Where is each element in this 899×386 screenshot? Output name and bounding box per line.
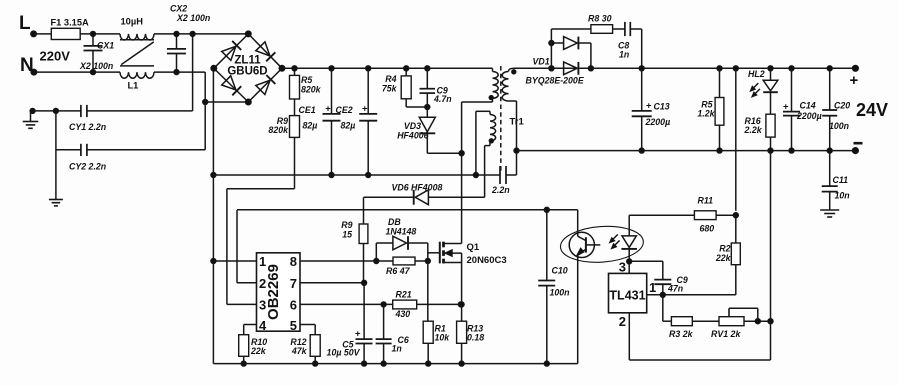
label + terminal <box>850 72 859 89</box>
svg-text:CE1: CE1 <box>299 105 316 115</box>
resistor R5 820k <box>290 66 322 116</box>
svg-text:C13: C13 <box>654 102 670 112</box>
wire <box>34 71 120 73</box>
wire snubber <box>551 29 591 68</box>
wire <box>55 111 57 197</box>
capacitor CY1 2.2n <box>69 105 106 132</box>
svg-text:N: N <box>20 55 34 76</box>
pin 5 <box>290 318 297 333</box>
svg-text:10n: 10n <box>835 191 850 201</box>
capacitor 2.2n <box>491 166 517 195</box>
capacitor CX1 <box>79 31 114 75</box>
svg-text:2.2n: 2.2n <box>491 185 510 195</box>
node bridge left vertex vertical <box>211 68 216 363</box>
terminal N <box>20 55 37 76</box>
wire pin8 gate drive <box>300 258 379 263</box>
svg-text:1: 1 <box>259 254 266 269</box>
wire DC- to bridge <box>205 101 248 103</box>
capacitor C20 100n <box>822 66 850 154</box>
svg-text:CY1 2.2n: CY1 2.2n <box>69 122 106 132</box>
pin 2 <box>259 276 266 291</box>
pin 2 label <box>619 314 626 329</box>
svg-text:15: 15 <box>342 230 352 240</box>
ground <box>820 192 839 217</box>
svg-text:220V: 220V <box>40 49 71 64</box>
wire pin3 <box>227 303 257 305</box>
wire <box>34 33 52 35</box>
svg-text:X2 100n: X2 100n <box>176 13 210 23</box>
wire divider column <box>770 151 772 360</box>
svg-text:CX1: CX1 <box>97 41 114 51</box>
led HL2 <box>748 66 778 115</box>
svg-text:C10: C10 <box>552 266 568 276</box>
transformer core <box>500 66 502 172</box>
svg-text:R21: R21 <box>396 290 412 300</box>
svg-text:TL431: TL431 <box>609 289 645 303</box>
svg-text:CE2: CE2 <box>336 105 353 115</box>
svg-text:82µ: 82µ <box>341 121 356 131</box>
svg-text:CY2 2.2n: CY2 2.2n <box>69 162 106 172</box>
svg-text:1N4148: 1N4148 <box>386 227 417 237</box>
svg-text:C20: C20 <box>834 101 850 111</box>
led opto <box>610 215 638 273</box>
svg-text:75k: 75k <box>382 84 398 94</box>
svg-text:HF4006: HF4006 <box>397 131 428 141</box>
potentiometer RV1 2k <box>711 308 773 339</box>
bridge rectifier ZL11 GBU6D <box>211 31 285 105</box>
svg-text:+: + <box>362 104 368 115</box>
svg-text:24V: 24V <box>856 100 888 120</box>
svg-text:GBU6D: GBU6D <box>227 66 267 78</box>
svg-text:DB: DB <box>388 217 401 227</box>
svg-text:20N60C3: 20N60C3 <box>467 255 507 266</box>
svg-text:OB2269: OB2269 <box>265 264 282 320</box>
svg-text:820k: 820k <box>268 125 289 135</box>
svg-text:F1 3.15A: F1 3.15A <box>51 18 90 28</box>
svg-text:VD6 HF4008: VD6 HF4008 <box>392 183 443 193</box>
capacitor C9 4.7n <box>420 66 452 118</box>
ground <box>49 197 63 206</box>
svg-text:HL2: HL2 <box>748 69 765 79</box>
svg-text:L1: L1 <box>128 81 139 91</box>
regulator TL431 box <box>609 273 647 312</box>
wire 24V- rail <box>517 148 859 154</box>
capacitor C5 10µ 50V <box>327 283 373 367</box>
svg-text:C14: C14 <box>800 101 816 111</box>
pin 4 <box>259 318 267 333</box>
svg-text:47n: 47n <box>667 284 683 294</box>
svg-text:BYQ28E-200E: BYQ28E-200E <box>526 76 585 86</box>
svg-text:+: + <box>783 102 789 113</box>
resistor R21 430 <box>393 290 464 320</box>
svg-text:R4: R4 <box>385 74 396 84</box>
svg-text:2: 2 <box>619 314 626 329</box>
svg-text:R5: R5 <box>301 75 312 85</box>
svg-text:R3 2k: R3 2k <box>669 329 694 339</box>
pin 3 <box>259 297 266 312</box>
svg-text:10µH: 10µH <box>121 17 144 27</box>
resistor R12 47k <box>290 325 320 367</box>
resistor R5 1.2k (output) <box>697 66 724 154</box>
resistor R4 75k <box>382 66 430 110</box>
wire CY1 branch from L row <box>87 31 195 111</box>
resistor R2 22k <box>715 215 740 295</box>
wire 24V+ rail <box>514 65 859 71</box>
svg-text:+: + <box>850 72 859 89</box>
svg-text:Tr1: Tr1 <box>510 117 525 128</box>
svg-text:VD1: VD1 <box>533 57 550 67</box>
svg-text:L: L <box>19 13 31 34</box>
pin 7 <box>290 276 297 291</box>
wire TL431 anode <box>629 313 770 360</box>
wire led anode <box>629 214 694 216</box>
svg-text:100n: 100n <box>829 121 849 131</box>
wire pin1 gnd <box>213 260 256 262</box>
resistor R3 2k <box>669 317 719 339</box>
transformer Tr1 aux winding <box>476 111 496 197</box>
svg-text:3: 3 <box>619 260 626 275</box>
wire <box>80 33 120 35</box>
capacitor C13 2200µ <box>632 66 670 154</box>
label 220V <box>40 49 71 64</box>
svg-text:0.18: 0.18 <box>467 333 484 343</box>
svg-text:VD3: VD3 <box>404 121 421 131</box>
resistor R11 680 <box>694 196 738 234</box>
resistor R10 22k <box>239 325 268 367</box>
svg-text:2200µ: 2200µ <box>645 117 671 127</box>
diode VD1b BYQ28E-200E <box>526 57 594 86</box>
wire feedback line <box>237 207 578 212</box>
resistor R9 820k <box>268 116 299 189</box>
svg-text:2200µ: 2200µ <box>796 111 822 121</box>
capacitor CX2 <box>167 4 210 75</box>
svg-text:430: 430 <box>395 309 411 319</box>
capacitor C6 1n <box>376 304 409 366</box>
svg-text:4.7n: 4.7n <box>433 94 452 104</box>
pin 8 <box>290 254 297 269</box>
wire pin2 feedback loop <box>237 210 257 283</box>
optocoupler ellipse <box>559 224 644 265</box>
diode VD1a <box>549 37 591 69</box>
resistor R8 30 <box>588 14 625 34</box>
svg-text:7: 7 <box>290 276 297 291</box>
svg-text:X2 100n: X2 100n <box>79 61 113 71</box>
svg-text:82µ: 82µ <box>303 121 318 131</box>
svg-text:+: + <box>646 101 652 112</box>
svg-text:2: 2 <box>259 276 266 291</box>
inductor L1 common-mode choke <box>120 17 154 91</box>
svg-text:5: 5 <box>290 318 297 333</box>
transistor Q1 20N60C3 <box>440 242 507 322</box>
resistor R16 2.2k <box>744 114 776 153</box>
transistor opto NPN <box>569 210 600 364</box>
svg-text:4: 4 <box>259 318 267 333</box>
svg-text:680: 680 <box>700 224 715 234</box>
wire HV rail <box>282 67 493 69</box>
capacitor C11 10n <box>822 151 850 201</box>
wire sense divider to pin3 <box>227 189 295 305</box>
wire primary ground rail <box>213 172 500 177</box>
svg-text:8: 8 <box>290 254 297 269</box>
resistor R1 10k <box>423 321 450 366</box>
diode VD6 HF4008 <box>364 183 485 205</box>
capacitor C9 47n <box>629 261 688 295</box>
svg-text:C11: C11 <box>833 175 849 185</box>
node CY junction <box>30 108 81 113</box>
resistor R6 47 <box>376 257 430 276</box>
wire clamp node <box>427 151 464 156</box>
ground <box>23 111 39 128</box>
wire pin1 row <box>647 292 736 297</box>
svg-text:R2: R2 <box>719 244 730 254</box>
svg-text:1n: 1n <box>392 344 402 354</box>
svg-text:22k: 22k <box>715 253 732 263</box>
pin 1 <box>259 254 266 269</box>
wire R11 column <box>733 66 738 211</box>
wire drain <box>461 153 463 243</box>
svg-text:47k: 47k <box>291 346 308 356</box>
wire ground rail <box>213 363 577 365</box>
diode VD3 HF4006 <box>397 117 435 153</box>
svg-text:22k: 22k <box>250 346 267 356</box>
svg-text:3: 3 <box>259 297 266 312</box>
resistor R13 0.18 <box>457 321 485 366</box>
svg-text:+: + <box>325 104 331 115</box>
wire <box>154 71 205 73</box>
capacitor C14 2200µ <box>783 66 822 154</box>
svg-text:6: 6 <box>290 297 297 312</box>
svg-text:R11: R11 <box>698 196 714 206</box>
wire <box>154 33 248 35</box>
wire N to DC- junction <box>203 72 208 105</box>
pin 3 label <box>619 260 626 275</box>
svg-text:10k: 10k <box>435 333 451 343</box>
capacitor CE1 82µ <box>299 66 341 178</box>
label 24V <box>856 100 888 120</box>
transformer Tr1 secondary <box>502 68 524 175</box>
capacitor C8 1n <box>618 22 642 68</box>
wire pin7 vcc <box>300 280 367 285</box>
svg-text:R6 47: R6 47 <box>386 266 411 276</box>
fuse F1 3.15A <box>51 18 90 40</box>
svg-text:820k: 820k <box>301 85 322 95</box>
op-amp U1 OB2269 box <box>257 253 301 331</box>
capacitor CY2 2.2n <box>56 102 205 172</box>
svg-text:100n: 100n <box>550 288 570 298</box>
diode DB 1N4148 <box>376 217 428 261</box>
resistor R9 15 <box>341 197 368 282</box>
svg-text:2.2k: 2.2k <box>744 125 763 135</box>
pin 1 label <box>649 280 656 295</box>
svg-text:RV1 2k: RV1 2k <box>711 329 741 339</box>
wire pin6 sense <box>300 302 393 307</box>
terminal L <box>19 13 37 37</box>
transformer Tr1 primary <box>462 68 499 153</box>
svg-text:1n: 1n <box>619 50 629 60</box>
svg-text:R8 30: R8 30 <box>588 14 612 24</box>
wire divider drop <box>663 295 672 321</box>
svg-text:CX2: CX2 <box>170 4 187 14</box>
svg-text:+: + <box>355 329 361 340</box>
svg-text:1: 1 <box>649 280 656 295</box>
wire gate node <box>428 243 440 321</box>
capacitor C10 100n <box>538 210 569 366</box>
pin 6 <box>290 297 297 312</box>
svg-text:1.2k: 1.2k <box>697 109 715 119</box>
label - terminal <box>854 142 863 145</box>
capacitor CE2 82µ <box>336 66 378 178</box>
svg-text:10µ 50V: 10µ 50V <box>327 348 361 358</box>
svg-text:R9: R9 <box>341 220 352 230</box>
svg-text:Q1: Q1 <box>467 242 480 253</box>
